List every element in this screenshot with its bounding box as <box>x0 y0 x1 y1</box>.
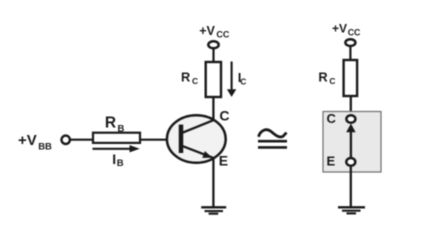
svg-text:E: E <box>219 153 228 169</box>
svg-text:C: C <box>327 111 337 126</box>
svg-text:+V: +V <box>18 132 37 149</box>
svg-text:B: B <box>118 123 125 134</box>
svg-text:E: E <box>327 154 336 169</box>
svg-text:B: B <box>117 158 124 169</box>
svg-text:+V: +V <box>332 22 347 36</box>
svg-text:BB: BB <box>38 142 52 153</box>
svg-text:C: C <box>219 108 229 124</box>
svg-text:CC: CC <box>348 28 361 38</box>
svg-text:I: I <box>112 151 116 167</box>
svg-text:+V: +V <box>199 24 215 38</box>
svg-text:C: C <box>240 77 246 87</box>
svg-text:R: R <box>181 70 190 85</box>
svg-text:C: C <box>192 76 198 86</box>
svg-text:R: R <box>105 115 116 132</box>
svg-text:C: C <box>329 76 335 86</box>
svg-text:R: R <box>318 70 327 85</box>
svg-text:CC: CC <box>216 30 229 40</box>
